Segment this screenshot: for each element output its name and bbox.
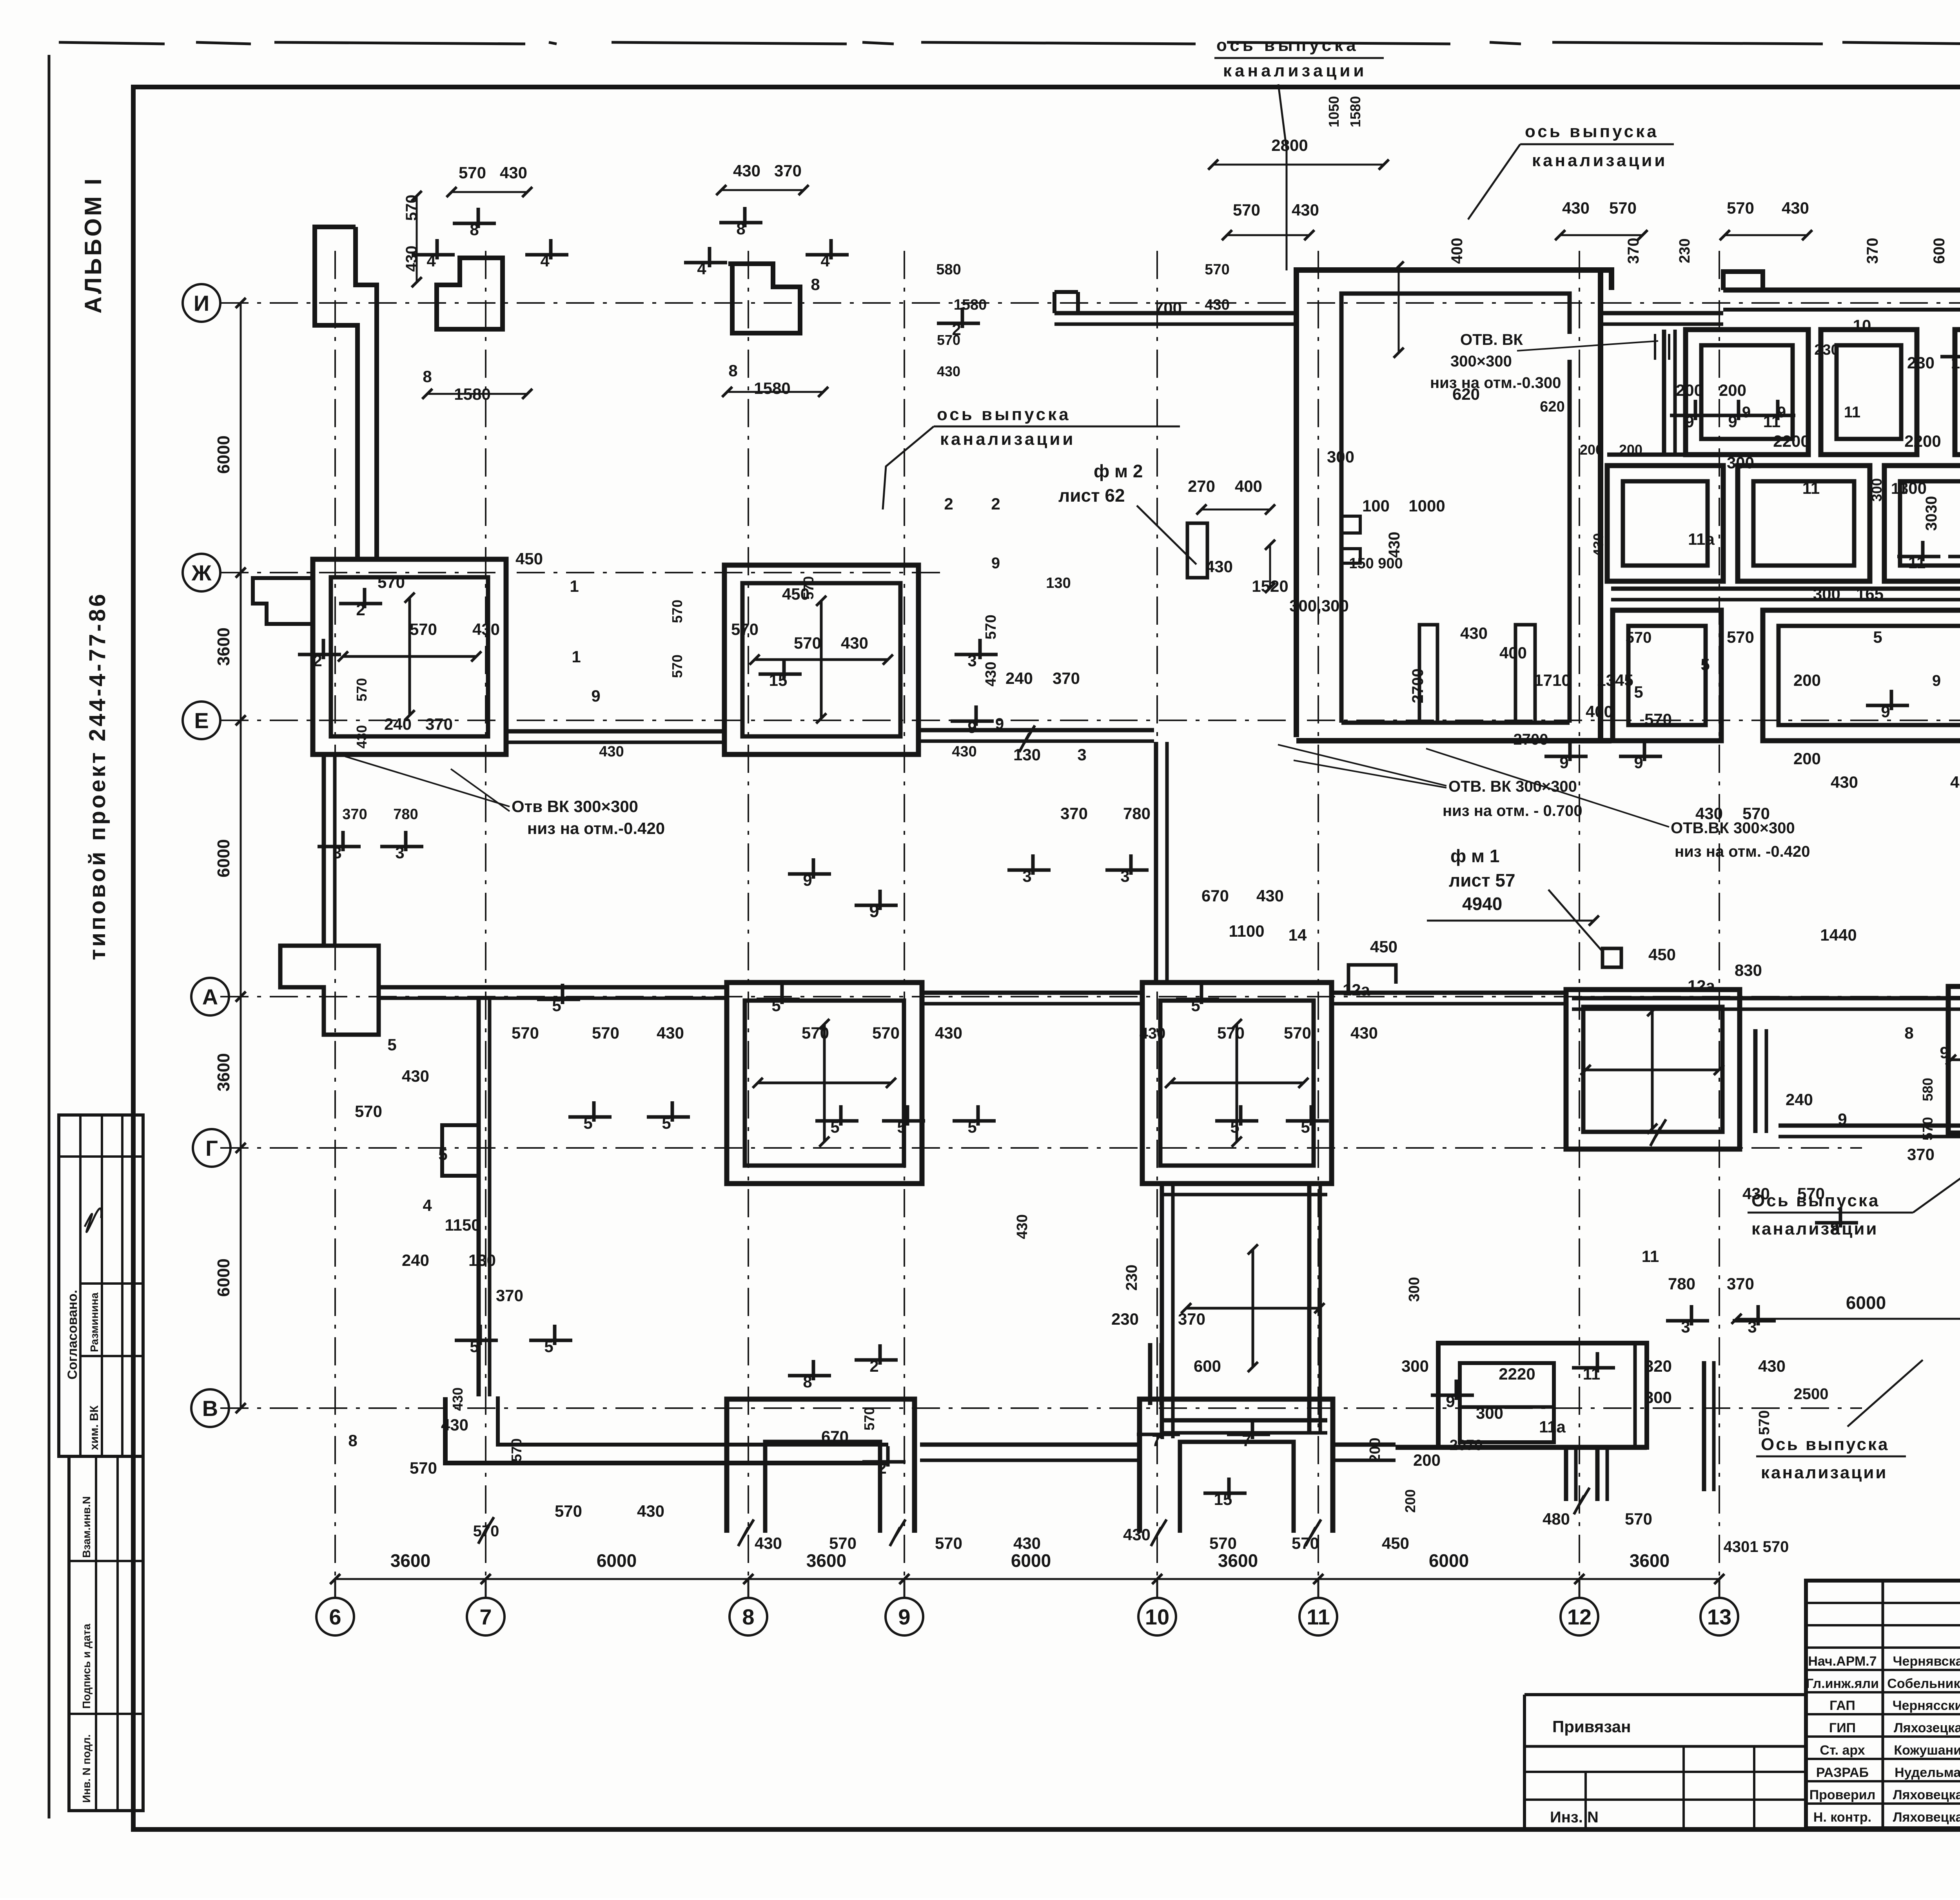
svg-text:200: 200	[1719, 381, 1746, 399]
svg-text:8: 8	[1904, 1024, 1913, 1042]
svg-text:570: 570	[459, 163, 486, 182]
svg-text:3600: 3600	[806, 1550, 846, 1571]
svg-text:370: 370	[1907, 1145, 1935, 1164]
svg-text:370: 370	[425, 715, 453, 733]
svg-text:165: 165	[1856, 585, 1884, 603]
vertical wall between E and A at x2965	[1154, 742, 1158, 983]
svg-text:2800: 2800	[1271, 136, 1308, 154]
svg-text:130: 130	[1013, 745, 1041, 764]
svg-text:430: 430	[1460, 624, 1488, 642]
svg-text:570: 570	[983, 615, 999, 639]
svg-text:430: 430	[441, 1416, 468, 1434]
svg-text:А: А	[202, 984, 218, 1009]
svg-text:430: 430	[1014, 1214, 1031, 1239]
svg-text:780: 780	[1123, 804, 1151, 823]
svg-text:В: В	[202, 1396, 218, 1421]
svg-text:канализации: канализации	[1751, 1219, 1878, 1238]
svg-text:2200: 2200	[1904, 432, 1941, 450]
svg-text:430: 430	[755, 1534, 782, 1552]
svg-text:РАЗРАБ: РАЗРАБ	[1816, 1765, 1869, 1780]
svg-text:570: 570	[1625, 1510, 1652, 1528]
svg-text:240: 240	[1005, 669, 1033, 687]
svg-text:200: 200	[1793, 749, 1821, 768]
left stamp table	[59, 1115, 143, 1456]
svg-text:430: 430	[937, 363, 960, 379]
svg-text:6000: 6000	[214, 435, 233, 474]
svg-text:Отв ВК 300×300: Отв ВК 300×300	[512, 797, 638, 816]
sheet border frame	[59, 42, 165, 44]
svg-text:570: 570	[354, 678, 370, 702]
svg-text:300×300: 300×300	[1450, 353, 1512, 370]
svg-text:430: 430	[657, 1024, 684, 1042]
svg-text:430: 430	[500, 163, 527, 182]
svg-text:570: 570	[1756, 1410, 1773, 1435]
svg-text:6000: 6000	[597, 1550, 637, 1571]
B corner axis 7	[445, 1397, 888, 1463]
svg-text:570: 570	[861, 1407, 877, 1430]
svg-text:11: 11	[1642, 1247, 1659, 1265]
svg-text:Нудельман: Нудельман	[1895, 1765, 1960, 1780]
svg-text:270: 270	[1188, 477, 1215, 495]
svg-text:лист 57: лист 57	[1449, 870, 1515, 890]
svg-text:Подпись и дата: Подпись и дата	[80, 1624, 93, 1709]
svg-text:430: 430	[1562, 199, 1590, 217]
svg-text:620: 620	[1540, 399, 1564, 415]
left axis circles	[183, 284, 220, 322]
right stub walls x4347	[1702, 1361, 1706, 1491]
svg-text:200: 200	[1793, 671, 1821, 689]
svg-text:430: 430	[1292, 201, 1319, 219]
svg-text:570: 570	[1727, 628, 1754, 646]
svg-text:430: 430	[1695, 804, 1723, 823]
bottom axis circles and dims	[335, 1578, 1719, 1580]
svg-text:200: 200	[1676, 381, 1703, 399]
T-footing axis 7	[437, 258, 503, 329]
left annex of title block	[1524, 1693, 1806, 1696]
svg-text:570: 570	[1217, 1024, 1245, 1042]
svg-text:5: 5	[1873, 628, 1882, 646]
svg-text:3: 3	[1077, 745, 1086, 764]
svg-text:570: 570	[1284, 1024, 1311, 1042]
FM2 marker rect	[1187, 523, 1207, 578]
svg-text:9: 9	[898, 1604, 910, 1629]
svg-text:830: 830	[1735, 961, 1762, 979]
svg-text:ОТВ. ВК 300×300: ОТВ. ВК 300×300	[1448, 778, 1577, 795]
svg-text:570: 570	[410, 1459, 437, 1477]
svg-text:2700: 2700	[1514, 731, 1548, 748]
svg-text:3600: 3600	[214, 1053, 233, 1091]
svg-text:4940: 4940	[1462, 894, 1502, 914]
svg-text:430: 430	[733, 161, 760, 180]
svg-text:430: 430	[402, 1067, 429, 1085]
A-row room axis 8	[727, 983, 922, 1184]
axis grid dash-dot lines	[220, 302, 1960, 304]
svg-text:370: 370	[1727, 1275, 1754, 1293]
svg-text:430: 430	[1590, 533, 1606, 557]
svg-text:430: 430	[1758, 1357, 1786, 1375]
A corridor wall left	[379, 985, 724, 990]
break marks	[738, 1519, 754, 1546]
svg-text:430: 430	[1831, 773, 1858, 791]
svg-text:200: 200	[1580, 442, 1603, 458]
svg-text:570: 570	[555, 1502, 582, 1520]
svg-text:9: 9	[1742, 404, 1751, 421]
svg-text:6000: 6000	[214, 1258, 233, 1297]
svg-text:570: 570	[935, 1534, 962, 1552]
svg-text:Ляхозецкая: Ляхозецкая	[1894, 1721, 1960, 1735]
wall: top-left stepped element near axis 6	[315, 227, 358, 559]
svg-text:Гл.инж.яли: Гл.инж.яли	[1806, 1676, 1879, 1691]
svg-text:ГИП: ГИП	[1829, 1721, 1856, 1735]
right block mid horizontal wall	[1611, 587, 1960, 591]
svg-text:400: 400	[1586, 702, 1613, 721]
svg-text:1000: 1000	[1408, 497, 1445, 515]
svg-text:4301 570: 4301 570	[1724, 1538, 1789, 1556]
svg-text:430: 430	[1013, 1534, 1041, 1552]
svg-text:570: 570	[937, 332, 960, 348]
svg-text:430: 430	[1742, 1184, 1770, 1203]
svg-text:400: 400	[1448, 238, 1466, 264]
svg-text:ось выпуска: ось выпуска	[1525, 122, 1659, 141]
svg-text:3600: 3600	[1630, 1550, 1670, 1571]
notches on central room left wall	[1341, 516, 1360, 533]
svg-text:6000: 6000	[1429, 1550, 1469, 1571]
svg-text:570: 570	[1797, 1184, 1825, 1203]
svg-text:430: 430	[1123, 1525, 1151, 1544]
A axis wall right part	[1572, 996, 1960, 1001]
svg-text:200: 200	[1402, 1489, 1418, 1513]
A corridor wall to lower mid block	[1332, 991, 1567, 995]
svg-text:Чернявская: Чернявская	[1893, 1654, 1960, 1669]
svg-text:5: 5	[387, 1035, 396, 1054]
lower-mid block left wall	[1160, 1184, 1164, 1438]
svg-text:11: 11	[1802, 479, 1820, 497]
svg-text:430: 430	[450, 1387, 466, 1411]
svg-text:430: 430	[935, 1024, 962, 1042]
bottom stubs below lower-mid block	[1564, 1447, 1568, 1501]
svg-text:12а: 12а	[1688, 977, 1715, 995]
right block rooms row Ж	[1686, 330, 1808, 455]
svg-text:ОТВ. ВК: ОТВ. ВК	[1460, 331, 1523, 348]
svg-text:Кожушанин: Кожушанин	[1894, 1743, 1960, 1758]
svg-text:130: 130	[468, 1251, 496, 1269]
svg-text:8: 8	[742, 1604, 754, 1629]
svg-text:570: 570	[1209, 1534, 1237, 1552]
svg-text:хим. ВК: хим. ВК	[88, 1405, 101, 1450]
svg-text:низ на отм.-0.420: низ на отм.-0.420	[527, 819, 665, 838]
svg-text:430: 430	[841, 634, 868, 652]
svg-text:Нач.АРМ.7: Нач.АРМ.7	[1808, 1654, 1877, 1669]
svg-text:низ на отм. -0.420: низ на отм. -0.420	[1675, 843, 1810, 860]
svg-text:ф м 1: ф м 1	[1450, 846, 1499, 866]
names table	[1882, 1581, 1884, 1828]
svg-text:АЛЬБОМ І: АЛЬБОМ І	[80, 176, 106, 314]
svg-text:12: 12	[1567, 1604, 1592, 1629]
svg-text:300: 300	[1869, 478, 1885, 502]
svg-text:430: 430	[1950, 773, 1960, 791]
svg-text:300: 300	[1644, 1388, 1672, 1407]
svg-text:2200: 2200	[1773, 432, 1809, 450]
svg-text:ГАП: ГАП	[1829, 1698, 1855, 1713]
svg-text:1150: 1150	[445, 1216, 480, 1234]
svg-text:Привязан: Привязан	[1552, 1717, 1631, 1736]
svg-text:570: 570	[1626, 629, 1652, 646]
svg-text:Ось выпуска: Ось выпуска	[1761, 1435, 1889, 1454]
T-footing axis 8	[728, 264, 800, 333]
svg-text:5: 5	[438, 1145, 447, 1164]
A-row room axis 10	[1142, 983, 1332, 1184]
A corridor wall mid	[922, 991, 1142, 995]
interior stub walls central room	[1419, 625, 1437, 723]
svg-text:Инз. N: Инз. N	[1550, 1809, 1599, 1826]
svg-text:11: 11	[1307, 1604, 1330, 1629]
svg-text:430: 430	[1205, 297, 1229, 313]
svg-text:9: 9	[1838, 1110, 1847, 1128]
svg-text:200: 200	[1367, 1438, 1383, 1462]
svg-text:1050: 1050	[1326, 96, 1342, 127]
svg-text:Ляховецкая: Ляховецкая	[1893, 1810, 1960, 1825]
corridor wall row Е left	[506, 729, 724, 734]
svg-text:3600: 3600	[1218, 1550, 1258, 1571]
svg-text:И: И	[194, 291, 209, 315]
svg-text:430: 430	[599, 743, 624, 760]
svg-text:2700: 2700	[1409, 669, 1426, 703]
svg-text:230: 230	[1111, 1310, 1139, 1328]
svg-text:570: 570	[669, 654, 685, 678]
central big room axes 10-11	[1296, 270, 1612, 737]
svg-text:300: 300	[1813, 585, 1840, 603]
room block axis 8 rows Ж-Е	[724, 565, 918, 754]
svg-text:570: 570	[872, 1024, 900, 1042]
svg-text:100: 100	[1362, 497, 1390, 515]
svg-text:600: 600	[1931, 238, 1948, 264]
svg-text:670: 670	[821, 1427, 849, 1446]
svg-text:Ст. арх: Ст. арх	[1820, 1743, 1865, 1758]
svg-text:430: 430	[354, 725, 370, 749]
tab at Г on axis7 wall	[442, 1125, 479, 1176]
svg-text:Ляховецкая: Ляховецкая	[1893, 1788, 1960, 1802]
svg-text:300,300: 300,300	[1289, 596, 1349, 615]
svg-text:3600: 3600	[214, 627, 233, 666]
svg-text:570: 570	[1727, 199, 1754, 217]
svg-text:3030: 3030	[1923, 496, 1940, 531]
svg-text:430: 430	[983, 662, 999, 686]
svg-text:570: 570	[1609, 199, 1637, 217]
svg-text:580: 580	[936, 261, 961, 278]
step tab above A near 12a	[1348, 965, 1396, 993]
svg-text:8: 8	[348, 1431, 357, 1450]
svg-text:300: 300	[1727, 453, 1754, 472]
svg-text:430: 430	[1205, 557, 1233, 576]
svg-text:400: 400	[1499, 644, 1527, 662]
svg-text:370: 370	[774, 161, 802, 180]
svg-text:низ на отм.-0.300: низ на отм.-0.300	[1430, 374, 1561, 392]
U-room axes 8-9	[727, 1399, 915, 1533]
svg-text:370: 370	[496, 1286, 523, 1305]
corridor wall row Е mid	[918, 728, 1154, 732]
svg-text:430: 430	[1782, 199, 1809, 217]
svg-text:580: 580	[1920, 1078, 1936, 1101]
svg-text:6000: 6000	[1011, 1550, 1051, 1571]
svg-text:570: 570	[1292, 1534, 1319, 1552]
svg-text:11а: 11а	[1688, 530, 1715, 548]
svg-text:1580: 1580	[754, 379, 790, 397]
svg-text:130: 130	[1046, 575, 1071, 591]
svg-text:9: 9	[1940, 1043, 1949, 1062]
svg-text:300: 300	[1327, 448, 1354, 466]
lower-mid block big room boundary	[1645, 1343, 1649, 1447]
svg-text:6: 6	[329, 1604, 341, 1629]
svg-text:570: 570	[377, 573, 405, 591]
svg-text:Согласовано.: Согласовано.	[65, 1290, 80, 1380]
svg-text:430: 430	[1350, 1024, 1378, 1042]
svg-text:370: 370	[342, 806, 367, 823]
svg-text:Е: Е	[194, 708, 209, 733]
svg-text:370: 370	[1625, 238, 1642, 264]
svg-text:570: 570	[800, 576, 817, 600]
svg-text:1580: 1580	[1347, 96, 1363, 127]
svg-text:типовой проект 244-4-77-86: типовой проект 244-4-77-86	[85, 592, 110, 960]
wall row И left segment	[1054, 311, 1296, 315]
svg-text:230: 230	[1907, 354, 1935, 372]
svg-text:12а: 12а	[1343, 981, 1370, 999]
svg-text:780: 780	[1668, 1275, 1695, 1293]
left axis dim line	[240, 303, 242, 1408]
svg-text:200: 200	[1619, 442, 1642, 458]
svg-text:Н. контр.: Н. контр.	[1813, 1810, 1871, 1825]
svg-text:300: 300	[1406, 1277, 1423, 1302]
svg-text:5: 5	[1634, 683, 1643, 701]
svg-text:300: 300	[1476, 1404, 1503, 1422]
svg-text:370: 370	[1864, 238, 1881, 264]
svg-text:1580: 1580	[954, 297, 987, 313]
svg-text:ОТВ.ВК 300×300: ОТВ.ВК 300×300	[1671, 819, 1795, 837]
U-room axes 10-11	[1140, 1399, 1333, 1533]
right block top crenellated wall row И	[1723, 288, 1960, 293]
svg-text:6000: 6000	[214, 839, 233, 877]
svg-text:430: 430	[1386, 532, 1403, 558]
svg-text:300: 300	[1401, 1357, 1429, 1375]
svg-text:230: 230	[1677, 238, 1693, 263]
svg-text:2070: 2070	[1450, 1437, 1483, 1454]
svg-text:5: 5	[1700, 655, 1710, 674]
svg-text:200: 200	[1413, 1451, 1441, 1469]
svg-text:11: 11	[1844, 404, 1860, 421]
svg-text:11: 11	[1891, 480, 1907, 497]
svg-text:Разминина: Разминина	[88, 1293, 100, 1352]
svg-text:Взам.инв.N: Взам.инв.N	[80, 1496, 93, 1558]
svg-text:570: 570	[1644, 710, 1672, 729]
svg-text:400: 400	[1235, 477, 1262, 495]
svg-text:2220: 2220	[1499, 1365, 1535, 1383]
svg-text:570: 570	[669, 600, 685, 623]
svg-text:1710: 1710	[1534, 671, 1570, 689]
svg-text:620: 620	[1452, 385, 1480, 403]
svg-text:570: 570	[508, 1438, 524, 1462]
svg-text:570: 570	[829, 1534, 857, 1552]
svg-text:канализации: канализации	[1223, 61, 1367, 80]
A-row rooms right	[1566, 990, 1740, 1149]
svg-text:430: 430	[1140, 1025, 1166, 1042]
svg-text:Ж: Ж	[191, 560, 212, 585]
svg-text:230: 230	[1814, 342, 1839, 358]
svg-text:6000: 6000	[1846, 1293, 1886, 1313]
svg-text:1: 1	[572, 647, 581, 666]
svg-text:лист 62: лист 62	[1058, 485, 1125, 506]
svg-text:Проверил: Проверил	[1809, 1788, 1876, 1802]
svg-text:ф м 2: ф м 2	[1094, 461, 1143, 481]
svg-text:570: 570	[592, 1024, 619, 1042]
svg-text:450: 450	[515, 549, 543, 568]
svg-text:320: 320	[1644, 1357, 1672, 1375]
wall between U-rooms	[920, 1443, 1140, 1447]
svg-text:Г: Г	[205, 1136, 218, 1160]
svg-text:570: 570	[355, 1102, 382, 1120]
svg-text:240: 240	[402, 1251, 429, 1269]
svg-text:Собельников: Собельников	[1887, 1676, 1960, 1691]
svg-text:Чернясский: Чернясский	[1893, 1698, 1960, 1713]
svg-text:9: 9	[995, 715, 1004, 732]
svg-text:570: 570	[1920, 1117, 1936, 1140]
svg-text:ось выпуска: ось выпуска	[1216, 36, 1359, 55]
svg-text:2500: 2500	[1794, 1385, 1829, 1403]
svg-text:600: 600	[1194, 1357, 1221, 1375]
svg-text:570: 570	[512, 1024, 539, 1042]
nested rect room 2220	[1438, 1343, 1647, 1447]
svg-text:570: 570	[1233, 201, 1260, 219]
svg-text:430: 430	[1256, 887, 1284, 905]
right block rooms row E	[1607, 466, 1723, 581]
svg-text:1: 1	[570, 577, 579, 595]
svg-text:13: 13	[1707, 1604, 1731, 1629]
svg-text:240: 240	[1786, 1090, 1813, 1109]
svg-text:450: 450	[1370, 937, 1397, 956]
room centre crosses	[343, 655, 476, 658]
misc section ticks	[453, 222, 496, 225]
svg-text:канализации: канализации	[1761, 1463, 1887, 1482]
svg-text:8: 8	[728, 361, 737, 380]
svg-text:канализации: канализации	[1532, 151, 1667, 170]
svg-text:11а: 11а	[1539, 1418, 1566, 1436]
svg-text:1440: 1440	[1820, 926, 1857, 944]
svg-text:570: 570	[1205, 261, 1229, 278]
svg-text:700: 700	[1154, 299, 1182, 317]
svg-text:780: 780	[393, 806, 418, 823]
svg-text:370: 370	[1060, 804, 1088, 823]
A-row lower stubs right	[1753, 1029, 1758, 1133]
svg-text:8: 8	[811, 275, 820, 294]
svg-text:14: 14	[1289, 926, 1307, 944]
left appendix at row Е	[253, 578, 313, 624]
svg-text:570: 570	[410, 620, 437, 638]
svg-text:10: 10	[1853, 316, 1871, 335]
svg-text:480: 480	[1543, 1510, 1570, 1528]
svg-text:7: 7	[479, 1604, 492, 1629]
svg-text:9: 9	[1932, 672, 1941, 689]
svg-text:370: 370	[1053, 669, 1080, 687]
svg-text:450: 450	[1648, 945, 1676, 964]
svg-text:570: 570	[1742, 804, 1770, 823]
vertical wall axis 6 between E and A	[322, 754, 326, 948]
title block outer	[1806, 1581, 1960, 1828]
vertical wall axis 7 from A to B	[477, 998, 481, 1396]
svg-text:430: 430	[472, 620, 500, 638]
room block axes 6-7 rows Ж-Е	[313, 559, 506, 754]
svg-text:1100: 1100	[1229, 922, 1264, 940]
svg-text:430: 430	[637, 1502, 664, 1520]
corridor walls right of central room	[1601, 311, 1723, 315]
svg-text:570: 570	[731, 620, 759, 638]
